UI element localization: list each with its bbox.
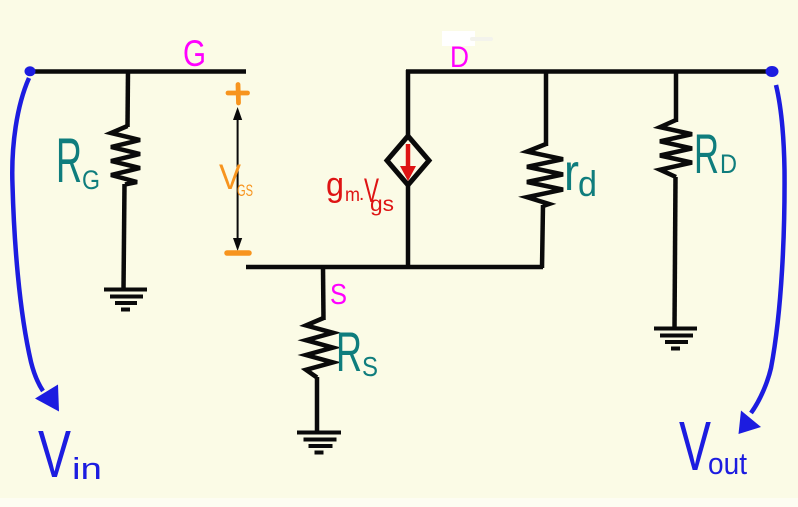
resistor R_D (660, 120, 692, 177)
label R_S (336, 320, 378, 383)
ground (below R_D) (654, 329, 697, 349)
svg-text:S: S (362, 351, 378, 382)
svg-text:d: d (578, 163, 597, 204)
wire: current source bottom lead (406, 185, 411, 268)
wire: current source top lead (406, 70, 411, 138)
svg-text:R: R (56, 126, 82, 196)
blue curved arrow (right, to V_out) (751, 85, 785, 413)
plus sign (orange) of V_GS (228, 85, 248, 104)
node: output node blue dot (right) (766, 66, 779, 77)
label V_GS (orange) (219, 158, 253, 200)
blue curved arrow (left, to V_in) (12, 78, 43, 391)
wire: R_G top lead (125, 70, 130, 127)
svg-text:G: G (183, 33, 206, 74)
bottom edge lighter strip (0, 498, 798, 507)
arrowhead of left blue arrow (35, 385, 59, 412)
resistor R_S (306, 318, 333, 378)
white smudge (correction mark) above D (442, 31, 493, 46)
svg-text:G: G (82, 165, 100, 195)
label V_in (blue) (38, 417, 102, 492)
wire: gate top wire G (33, 69, 246, 74)
dependent current source U1 (diamond) (387, 136, 429, 185)
svg-text:V: V (679, 407, 711, 485)
V_GS measuring arrow (double-headed) (233, 107, 242, 251)
svg-text:S: S (330, 279, 347, 311)
arrowhead of right blue arrow (739, 411, 762, 435)
red current arrow inside diamond (400, 144, 416, 181)
svg-text:in: in (72, 451, 102, 486)
node: input node blue dot (left) (25, 66, 36, 76)
svg-text:D: D (720, 149, 737, 179)
wire: R_S top lead (321, 267, 326, 320)
svg-text:GS: GS (237, 181, 253, 200)
ground (below R_S) (297, 433, 341, 453)
svg-text:m: m (345, 185, 360, 206)
wire: source bottom rail S (246, 265, 543, 270)
label g_m V_gs (red) (326, 166, 394, 216)
svg-text:r: r (564, 144, 579, 202)
wire: R_D bottom lead (675, 177, 676, 329)
svg-text:out: out (708, 446, 747, 481)
label V_out (blue) (679, 407, 747, 485)
label R_G (56, 126, 100, 196)
wire: drain top wire D (406, 69, 768, 74)
wire: r_d top lead (544, 70, 549, 146)
resistor r_d (527, 144, 563, 206)
wire: R_G bottom lead (124, 184, 125, 290)
svg-text:R: R (694, 122, 719, 185)
label r_d (564, 144, 597, 204)
svg-text:R: R (336, 320, 362, 383)
wire: R_S bottom lead (315, 377, 320, 432)
label R_D (694, 122, 737, 185)
minus sign (orange) of V_GS (227, 250, 249, 256)
svg-text:D: D (450, 41, 469, 74)
resistor R_G (111, 126, 140, 185)
svg-text:V: V (38, 417, 71, 492)
wire: R_D top lead (674, 70, 679, 122)
ground (below R_G) (104, 290, 147, 310)
svg-text:gs: gs (370, 193, 394, 216)
svg-text:g: g (326, 166, 344, 204)
wire: r_d bottom lead (542, 205, 543, 268)
